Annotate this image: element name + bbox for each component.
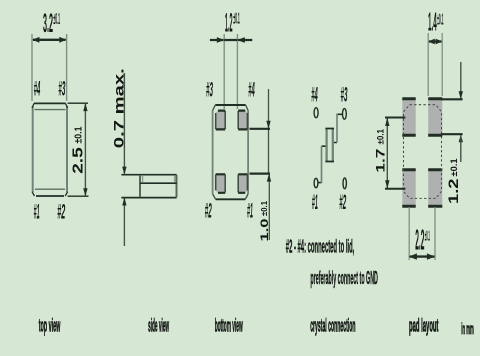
svg-text:#3: #3 [58, 78, 65, 101]
svg-text:#1: #1 [247, 200, 253, 223]
svg-text:#2: #2 [205, 200, 212, 223]
svg-text:#4: #4 [248, 79, 255, 102]
svg-text:#2: #2 [57, 201, 65, 224]
svg-text:#3: #3 [341, 84, 348, 107]
svg-text:in mm: in mm [461, 321, 474, 338]
svg-text:±0.1: ±0.1 [375, 129, 385, 145]
svg-text:side view: side view [148, 316, 169, 336]
svg-text:±0.1: ±0.1 [53, 11, 60, 28]
svg-text:#2 - #4: connected to lid,: #2 - #4: connected to lid, [286, 237, 355, 257]
svg-text:crystal connection: crystal connection [310, 316, 355, 336]
svg-text:3.2: 3.2 [43, 8, 53, 38]
svg-text:bottom view: bottom view [215, 316, 243, 336]
svg-text:±0.1: ±0.1 [259, 201, 269, 216]
svg-text:#2: #2 [339, 191, 346, 214]
svg-text:1.4: 1.4 [428, 7, 437, 37]
svg-text:2.2: 2.2 [415, 225, 424, 257]
svg-text:1.2: 1.2 [225, 7, 233, 37]
svg-text:#4: #4 [34, 78, 41, 101]
svg-text:1.0: 1.0 [259, 219, 271, 242]
svg-text:#1: #1 [312, 191, 318, 214]
svg-text:1.2: 1.2 [445, 178, 461, 204]
svg-text:top view: top view [39, 316, 61, 336]
svg-text:pad layout: pad layout [409, 316, 439, 336]
svg-text:#4: #4 [311, 84, 318, 107]
svg-text:1.7: 1.7 [374, 148, 388, 172]
svg-text:0.7 max.: 0.7 max. [111, 68, 127, 148]
svg-text:±0.1: ±0.1 [73, 126, 84, 143]
svg-text:#3: #3 [206, 79, 213, 102]
svg-text:#1: #1 [34, 201, 40, 224]
svg-text:preferably connect to GND: preferably connect to GND [310, 268, 378, 288]
svg-text:±0.1: ±0.1 [425, 228, 430, 245]
svg-text:2.5: 2.5 [71, 147, 87, 174]
svg-text:±0.1: ±0.1 [233, 11, 240, 28]
svg-text:±0.1: ±0.1 [437, 12, 443, 29]
svg-text:±0.1: ±0.1 [449, 159, 459, 177]
